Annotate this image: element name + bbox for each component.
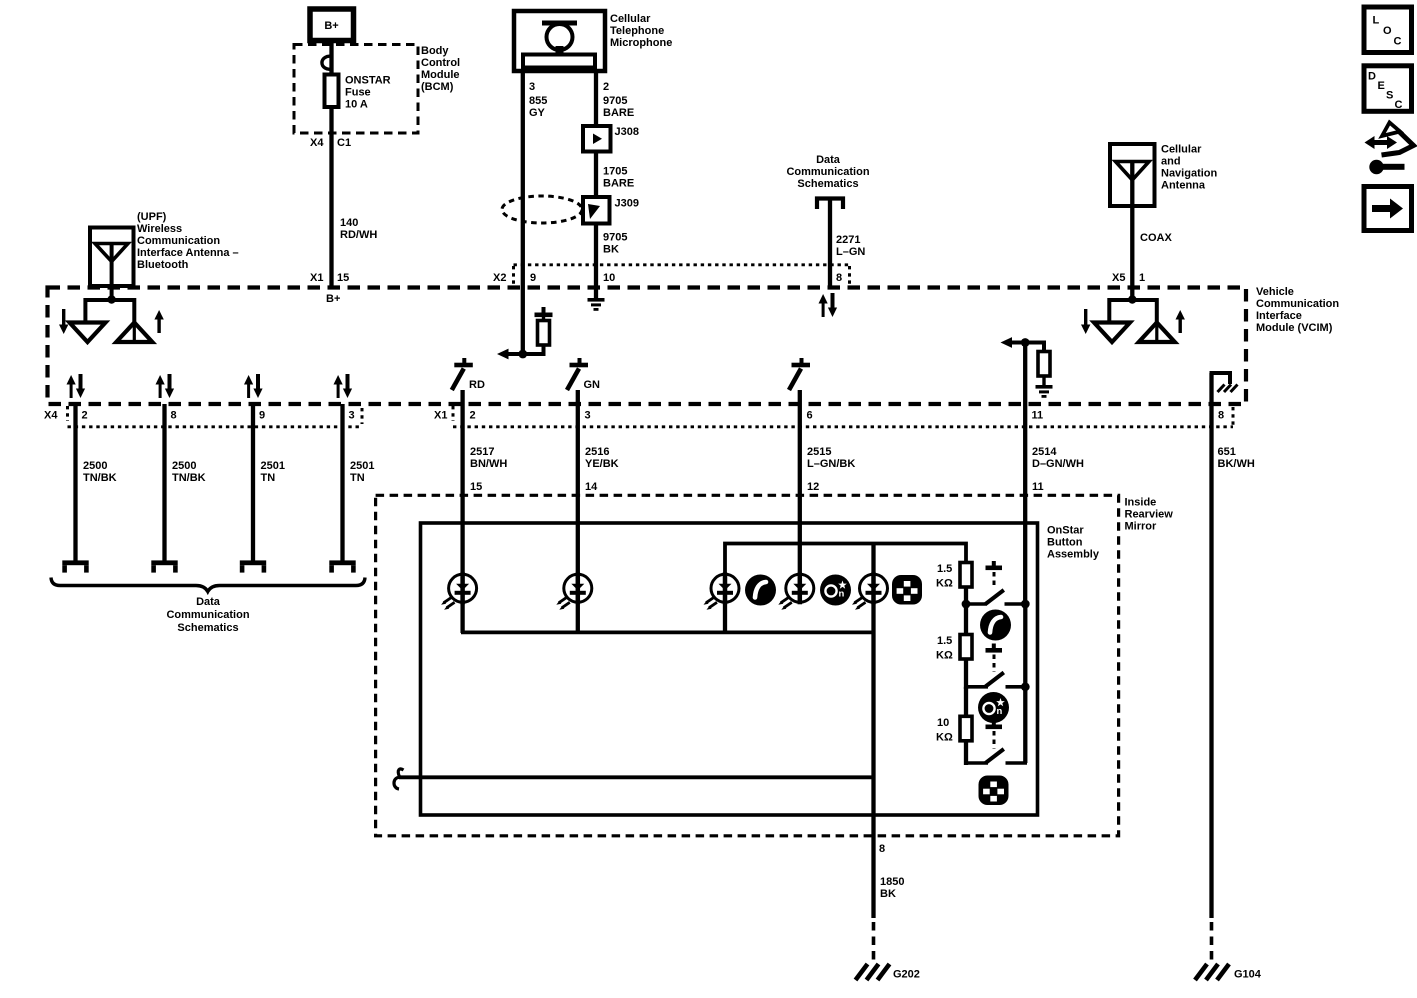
fuse value label: [345, 75, 391, 111]
svg-text:Cellular: Cellular: [610, 13, 651, 25]
svg-text:6: 6: [807, 410, 813, 422]
svg-text:11: 11: [1032, 410, 1044, 422]
splice J309: [583, 197, 610, 224]
row3 wires: [966, 761, 1027, 765]
svg-text:2517: 2517: [470, 446, 494, 458]
svg-text:2500: 2500: [172, 460, 196, 472]
svg-text:C1: C1: [337, 137, 351, 149]
wire 2501 TN (X4 pin 9): [251, 404, 255, 561]
VCIM label: [1256, 286, 1339, 334]
svg-text:TN: TN: [350, 472, 365, 484]
svg-text:Communication: Communication: [166, 609, 249, 621]
svg-text:BN/WH: BN/WH: [470, 458, 507, 470]
svg-text:GN: GN: [584, 379, 601, 391]
svg-text:KΩ: KΩ: [936, 732, 953, 744]
svg-text:(BCM): (BCM): [421, 81, 454, 93]
svg-text:2: 2: [82, 410, 88, 422]
brace under X4 wires: [51, 578, 365, 592]
wire 9705 BARE / BK from mic pin 2: [594, 71, 598, 298]
wire 2501 TN (X4 pin 3): [340, 404, 344, 561]
next-page arrow box: [1364, 187, 1412, 231]
svg-text:Interface Antenna –: Interface Antenna –: [137, 247, 239, 259]
svg-text:Interface: Interface: [1256, 310, 1302, 322]
phone button symbol: [980, 610, 1011, 641]
ground G202: [856, 964, 890, 980]
svg-text:2271: 2271: [836, 234, 860, 246]
cellular antenna label: [1161, 144, 1218, 192]
svg-text:1850: 1850: [880, 876, 904, 888]
svg-text:J309: J309: [615, 198, 639, 210]
mirror internal bottom wire: [399, 775, 874, 779]
connector X4 C1 labels of BCM: [310, 137, 351, 149]
svg-text:Assembly: Assembly: [1047, 549, 1100, 561]
X2 connector tick: [512, 266, 515, 286]
svg-text:2: 2: [603, 81, 609, 93]
svg-text:KΩ: KΩ: [936, 650, 953, 662]
wire LED3 lower: [723, 575, 727, 633]
svg-text:L: L: [1373, 15, 1380, 27]
svg-text:14: 14: [585, 481, 598, 493]
mirror label: [1125, 497, 1174, 533]
svg-text:2500: 2500: [83, 460, 107, 472]
svg-text:BARE: BARE: [603, 178, 634, 190]
wire label 2500 TN/BK b: [172, 460, 206, 484]
row2 junction wires: [966, 682, 1030, 691]
svg-text:S: S: [1386, 90, 1393, 102]
wire label 2501 TN b: [350, 460, 374, 484]
LED bus bottom line: [461, 631, 874, 635]
svg-text:Communication: Communication: [1256, 298, 1339, 310]
wire label 9705 BK: [603, 232, 627, 256]
svg-text:RD/WH: RD/WH: [340, 229, 377, 241]
splice J308: [583, 126, 611, 152]
svg-text:2514: 2514: [1032, 446, 1057, 458]
svg-text:X4: X4: [44, 410, 58, 422]
svg-text:Antenna: Antenna: [1161, 180, 1206, 192]
svg-text:Communication: Communication: [137, 235, 220, 247]
svg-text:855: 855: [529, 95, 547, 107]
svg-text:Control: Control: [421, 57, 460, 69]
pin X5 1 labels: [1112, 272, 1145, 284]
svg-text:Module (VCIM): Module (VCIM): [1256, 322, 1333, 334]
svg-text:B+: B+: [326, 293, 340, 305]
wire label 2516 YE/BK: [585, 446, 619, 470]
svg-text:TN: TN: [261, 472, 276, 484]
terminal on wire 2501 b: [329, 560, 355, 572]
up/down arrows above X4 pin 2: [67, 374, 86, 398]
wire LED5 column to mirror pin 8: [871, 544, 875, 919]
svg-text:G104: G104: [1234, 969, 1262, 981]
up/down arrows above X4 pin 3: [334, 374, 353, 398]
svg-text:651: 651: [1218, 446, 1236, 458]
svg-text:BK: BK: [880, 888, 896, 900]
svg-text:and: and: [1161, 156, 1181, 168]
svg-text:9: 9: [259, 410, 265, 422]
dashed wire to G202: [872, 922, 876, 963]
svg-text:8: 8: [836, 272, 842, 284]
resistor R3 10K: [960, 716, 972, 741]
svg-text:TN/BK: TN/BK: [172, 472, 206, 484]
svg-text:(UPF): (UPF): [137, 211, 167, 223]
svg-text:Wireless: Wireless: [137, 223, 182, 235]
svg-text:KΩ: KΩ: [936, 578, 953, 590]
off-page bracket: [817, 199, 843, 210]
svg-text:Cellular: Cellular: [1161, 144, 1202, 156]
svg-text:15: 15: [470, 481, 482, 493]
svg-text:2501: 2501: [261, 460, 285, 472]
inline connector symbol RD above X1 pin 2: [452, 358, 473, 390]
VCIM internal antenna node (left): [59, 286, 164, 342]
svg-text:X2: X2: [493, 272, 506, 284]
svg-text:8: 8: [171, 410, 177, 422]
svg-text:Schematics: Schematics: [797, 178, 858, 190]
X1 pin 11 internal branch: left arrow, junction, resistor to ground: [1001, 337, 1053, 398]
DESC legend box: [1364, 66, 1412, 112]
LED D1: [441, 572, 477, 610]
svg-text:Microphone: Microphone: [610, 37, 672, 49]
Inside Rearview Mirror dashed box: [376, 495, 1119, 836]
svg-text:Rearview: Rearview: [1125, 509, 1174, 521]
row1 junction wires: [962, 600, 1030, 609]
wire 2500 TN/BK (X4 pin 8): [162, 404, 166, 561]
up/down arrows below pin 8: [819, 293, 838, 317]
svg-text:X4: X4: [310, 137, 324, 149]
Cellular and Navigation Antenna box: [1110, 144, 1155, 206]
wire 2271 L-GN: [828, 198, 832, 288]
svg-text:8: 8: [879, 843, 885, 855]
resistor R1 1.5K: [960, 563, 972, 588]
LED bus top line: [725, 544, 966, 589]
wire label 2514 D-GN/WH: [1032, 446, 1084, 470]
wire label 2517 BN/WH: [470, 446, 507, 470]
inline connector symbol GN above X1 pin 3: [567, 358, 588, 390]
Body Control Module dashed box: [294, 45, 418, 134]
svg-text:C: C: [1395, 99, 1403, 111]
connector tick at right pin 8: [1232, 407, 1235, 425]
LOC legend box: [1364, 7, 1412, 53]
wire label 2501 TN: [261, 460, 285, 484]
wire label 651 BK/WH: [1218, 446, 1255, 470]
ladder right vertical wire: [1023, 604, 1027, 763]
LED D4: [778, 572, 814, 610]
microphone label: [610, 13, 672, 49]
svg-text:RD: RD: [469, 379, 485, 391]
connector tick right of pin 8: [848, 266, 851, 286]
X1 connector dotted line: [453, 425, 1233, 428]
switch S1: [986, 561, 1004, 604]
BCM label: [421, 45, 460, 93]
svg-text:3: 3: [349, 410, 355, 422]
hook terminator on bottom wire: [394, 769, 404, 789]
svg-text:D–GN/WH: D–GN/WH: [1032, 458, 1084, 470]
VCIM internal antenna node (right): [1081, 295, 1185, 342]
svg-text:YE/BK: YE/BK: [585, 458, 619, 470]
ground G104: [1195, 964, 1229, 980]
svg-text:1.5: 1.5: [937, 635, 952, 647]
svg-text:O: O: [1383, 25, 1392, 37]
svg-text:3: 3: [529, 81, 535, 93]
wire R2 to row2: [964, 659, 968, 689]
svg-text:Bluetooth: Bluetooth: [137, 259, 189, 271]
X4 connector tick right: [361, 408, 364, 424]
B+ power feed symbol: [310, 9, 354, 41]
wire R1 to row1: [964, 587, 968, 606]
svg-text:n: n: [997, 706, 1003, 717]
R3 label: [936, 717, 953, 744]
svg-text:ONSTAR: ONSTAR: [345, 75, 391, 87]
Cellular Telephone Microphone box: [514, 11, 605, 71]
wire 855 GY from mic pin 3: [521, 71, 525, 354]
svg-text:1.5: 1.5: [937, 563, 952, 575]
phone icon button face: [745, 575, 776, 606]
svg-text:Data: Data: [196, 596, 221, 608]
On* icon face: [820, 575, 851, 606]
dashed wire to G104: [1210, 922, 1214, 963]
svg-text:B+: B+: [324, 20, 338, 32]
wire label 140 RD/WH: [340, 217, 377, 241]
svg-text:BK/WH: BK/WH: [1218, 458, 1255, 470]
Vehicle Communication Interface Module dashed box: [48, 288, 1247, 405]
svg-text:10 A: 10 A: [345, 99, 368, 111]
LED D5: [852, 572, 888, 610]
svg-text:G202: G202: [893, 969, 920, 981]
up/down arrows above X4 pin 8: [156, 374, 175, 398]
svg-text:TN/BK: TN/BK: [83, 472, 117, 484]
wire row2 to R3: [964, 687, 968, 717]
svg-text:9: 9: [530, 272, 536, 284]
svg-text:Inside: Inside: [1125, 497, 1157, 509]
svg-text:10: 10: [937, 717, 949, 729]
svg-text:Vehicle: Vehicle: [1256, 286, 1294, 298]
wire label 1705 BARE: [603, 166, 634, 190]
Wireless Communication Interface Antenna Bluetooth box: [90, 228, 134, 287]
wire 2515 L-GN/BK: [798, 390, 802, 575]
fuse ONSTAR 10 A: [325, 75, 339, 108]
up/down arrows above X4 pin 9: [244, 374, 263, 398]
wire label 855 GY: [529, 95, 547, 119]
svg-text:OnStar: OnStar: [1047, 525, 1084, 537]
route legend icon: [1365, 123, 1414, 175]
svg-text:X1: X1: [434, 410, 447, 422]
X1 connector tick: [452, 406, 455, 421]
wire label 2515 L-GN/BK: [807, 446, 855, 470]
svg-text:Mirror: Mirror: [1125, 521, 1158, 533]
svg-text:Communication: Communication: [786, 166, 869, 178]
svg-text:15: 15: [337, 272, 349, 284]
signal ground below X2 pin 10: [588, 298, 605, 311]
svg-text:GY: GY: [529, 107, 546, 119]
X2 connector dotted line: [514, 263, 850, 266]
VCIM pin 8 internal chassis hook: [1212, 373, 1238, 392]
resistor R2 1.5K: [960, 635, 972, 660]
svg-text:n: n: [839, 589, 845, 600]
svg-text:9705: 9705: [603, 95, 627, 107]
svg-text:3: 3: [585, 410, 591, 422]
OnStar assembly label: [1047, 525, 1100, 561]
wire 2514 D-GN/WH: [1023, 343, 1027, 605]
svg-text:1: 1: [1139, 272, 1145, 284]
svg-text:BARE: BARE: [603, 107, 634, 119]
svg-text:E: E: [1378, 80, 1385, 92]
On* button symbol: [978, 692, 1009, 723]
svg-text:L–GN/BK: L–GN/BK: [807, 458, 855, 470]
switch S2: [986, 644, 1004, 687]
svg-text:140: 140: [340, 217, 358, 229]
cross icon face: [892, 575, 922, 605]
svg-text:Telephone: Telephone: [610, 25, 664, 37]
wire 2500 TN/BK (X4 pin 2): [73, 404, 77, 561]
wire label 9705 BARE: [603, 95, 634, 119]
wire label 2500 TN/BK: [83, 460, 117, 484]
svg-text:1705: 1705: [603, 166, 627, 178]
svg-text:L–GN: L–GN: [836, 246, 865, 258]
svg-text:8: 8: [1218, 410, 1224, 422]
wire R3 to row3: [964, 741, 968, 766]
svg-text:9705: 9705: [603, 232, 627, 244]
pin X1 15 labels at VCIM: [310, 272, 349, 284]
R2 label: [936, 635, 953, 662]
wire row1 to R2: [964, 604, 968, 635]
X2 pin 9 internal branch: left arrow, junction, resistor to terminal: [497, 307, 553, 359]
inline connector symbol above X1 pin 6: [789, 358, 810, 390]
wire 651 BK/WH: [1209, 373, 1213, 918]
svg-text:Schematics: Schematics: [177, 622, 238, 634]
svg-text:12: 12: [807, 481, 819, 493]
svg-text:Navigation: Navigation: [1161, 168, 1218, 180]
wire 2517 BN/WH: [460, 390, 464, 633]
Data Communication Schematics label (bottom): [166, 596, 249, 634]
svg-text:2501: 2501: [350, 460, 374, 472]
svg-text:C: C: [1394, 36, 1402, 48]
wire label 1850 BK: [880, 876, 904, 900]
shield dashed ellipse: [502, 196, 582, 223]
terminal on wire 2500: [62, 560, 88, 572]
svg-text:2: 2: [470, 410, 476, 422]
svg-text:D: D: [1368, 71, 1376, 83]
wire 140 RD/WH from B+ through ONSTAR fuse to VCIM X1-15: [329, 40, 333, 288]
svg-text:COAX: COAX: [1140, 232, 1172, 244]
wire 2516 YE/BK: [576, 390, 580, 633]
svg-text:2516: 2516: [585, 446, 609, 458]
svg-text:Button: Button: [1047, 537, 1083, 549]
svg-text:X1: X1: [310, 272, 323, 284]
svg-text:2515: 2515: [807, 446, 831, 458]
svg-text:11: 11: [1032, 481, 1044, 493]
switch S3: [986, 720, 1004, 763]
X4 connector dotted line: [68, 425, 363, 428]
terminal on wire 2500 b: [151, 560, 177, 572]
LED D2: [556, 572, 592, 610]
wire label 2271 L-GN: [836, 234, 865, 258]
connector clip at fuse input: [322, 56, 332, 69]
svg-text:Body: Body: [421, 45, 449, 57]
svg-text:Fuse: Fuse: [345, 87, 371, 99]
svg-text:BK: BK: [603, 244, 619, 256]
Data Communication Schematics label (top): [786, 154, 869, 190]
wire COAX: [1130, 162, 1134, 301]
OnStar Button Assembly box: [421, 523, 1038, 815]
bluetooth antenna label: [137, 211, 239, 271]
svg-text:10: 10: [603, 272, 615, 284]
terminal on wire 2501: [240, 560, 266, 572]
svg-text:Module: Module: [421, 69, 460, 81]
svg-text:Data: Data: [816, 154, 841, 166]
LED D3: [704, 572, 740, 610]
X4 connector tick left: [66, 406, 69, 421]
cross button symbol: [979, 776, 1009, 806]
svg-text:J308: J308: [615, 126, 639, 138]
R1 label: [936, 563, 953, 590]
svg-text:X5: X5: [1112, 272, 1125, 284]
